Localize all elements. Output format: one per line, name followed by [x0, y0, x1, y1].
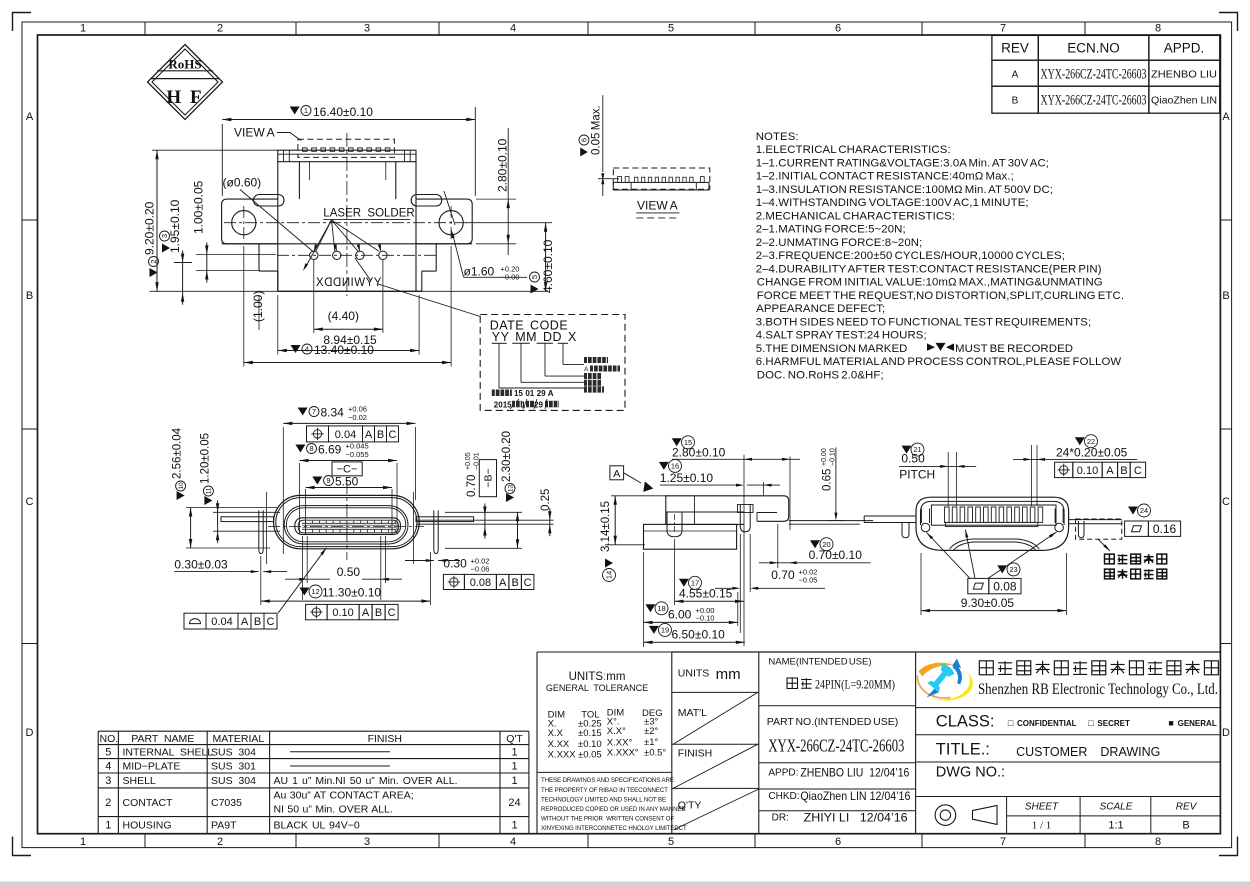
svg-text:1: 1 — [511, 775, 517, 787]
svg-text:24*0.20±0.05: 24*0.20±0.05 — [1056, 445, 1128, 459]
front view: dim 6.69 — [295, 445, 305, 453]
front view: fcf position 0.10 — [306, 604, 328, 619]
svg-text:0.25: 0.25 — [540, 489, 552, 511]
pin view: body outline — [916, 497, 1069, 550]
svg-text:3: 3 — [364, 836, 370, 848]
svg-text:10: 10 — [178, 482, 185, 490]
svg-text:0.50: 0.50 — [337, 565, 361, 579]
svg-text:6.50±0.10: 6.50±0.10 — [672, 628, 726, 642]
svg-text:2: 2 — [217, 836, 223, 848]
svg-text:2: 2 — [149, 259, 158, 263]
svg-text:8: 8 — [309, 444, 313, 453]
svg-text:3: 3 — [364, 23, 370, 35]
front view: fcf arc 0.04 with leader — [184, 613, 206, 629]
left dim 1.95 — [174, 262, 192, 264]
svg-text:WITHOUT THE PRIOR WRITTEN CON: WITHOUT THE PRIOR WRITTEN CONSENT OF — [541, 815, 674, 822]
svg-text:INTERNAL SHELL: INTERNAL SHELL — [123, 746, 214, 758]
svg-text:mm: mm — [716, 666, 741, 683]
svg-text:FINISH: FINISH — [678, 747, 712, 759]
svg-text:PA9T: PA9T — [211, 819, 237, 831]
sheet/scale/rev mini table — [916, 796, 1221, 798]
svg-text:A: A — [584, 366, 589, 373]
svg-text:−0.05: −0.05 — [799, 576, 818, 585]
svg-text:B: B — [26, 290, 33, 302]
mounting holes — [232, 211, 256, 235]
svg-text:MAT'L: MAT'L — [678, 707, 707, 719]
side view: dim 2.80 — [672, 438, 682, 446]
svg-text:XYX-266CZ-24TC-26603: XYX-266CZ-24TC-26603 — [1041, 67, 1147, 83]
svg-text:4: 4 — [510, 836, 516, 848]
svg-text:CLASS:: CLASS: — [936, 712, 995, 730]
pin view: right lead and dashed zone — [1069, 519, 1122, 521]
svg-text:□: □ — [1008, 718, 1014, 728]
svg-text:UNITS: UNITS — [678, 667, 710, 679]
pin view: side latches — [921, 523, 930, 532]
svg-text:6: 6 — [835, 836, 841, 848]
svg-text:Q'TY: Q'TY — [678, 800, 702, 812]
svg-text:24PIN(L=9.20MM): 24PIN(L=9.20MM) — [815, 676, 895, 691]
svg-text:X.XXX°: X.XXX° — [607, 748, 639, 759]
svg-text:SUS 304: SUS 304 — [211, 746, 256, 758]
svg-text:(ø0.60): (ø0.60) — [223, 176, 262, 190]
svg-text:3.BOTH SIDES NEED TO FUNCT: 3.BOTH SIDES NEED TO FUNCTIONAL TEST REQ… — [756, 316, 1092, 328]
svg-text:MID−PLATE: MID−PLATE — [123, 761, 181, 773]
svg-text:0.04: 0.04 — [335, 429, 356, 441]
svg-text:2.80±0.10: 2.80±0.10 — [672, 445, 726, 459]
svg-text:2–1.MATING FORCE:5~20N;: 2–1.MATING FORCE:5~20N; — [756, 224, 906, 236]
svg-text:GENERAL TOLERANCE: GENERAL TOLERANCE — [546, 683, 648, 693]
svg-text:2: 2 — [217, 23, 223, 35]
left dim 9.20 — [152, 149, 278, 151]
svg-text:A: A — [499, 577, 507, 589]
svg-text:A: A — [362, 607, 370, 619]
svg-text:Q'T: Q'T — [506, 733, 523, 745]
svg-text:0.16: 0.16 — [1153, 522, 1177, 536]
svg-text:9: 9 — [326, 476, 330, 485]
revision table — [992, 35, 1038, 60]
svg-text:PITCH: PITCH — [899, 468, 935, 482]
svg-text:1: 1 — [80, 836, 86, 848]
svg-text:1: 1 — [511, 746, 517, 758]
svg-text:CHANGE FROM INITIAL VALUE:1: CHANGE FROM INITIAL VALUE:10mΩ MAX.,MATI… — [756, 277, 1103, 289]
svg-text:DRAWING: DRAWING — [1100, 745, 1160, 759]
view a detail: part profile — [613, 168, 710, 189]
svg-text:D: D — [1222, 727, 1230, 739]
title block grid — [672, 651, 1221, 653]
svg-text:1–2.INITIAL CONTACT RESISTAN: 1–2.INITIAL CONTACT RESISTANCE:40mΩ Max.… — [756, 171, 1014, 183]
svg-text:UNITSːmm: UNITSːmm — [569, 671, 626, 683]
svg-text:8: 8 — [1155, 836, 1161, 848]
svg-text:2–3.FREQUENCE:200±50 CYCLES/H: 2–3.FREQUENCE:200±50 CYCLES/HOUR,10000 C… — [756, 250, 1065, 262]
svg-text:ZHENBO LIU 12/04’16: ZHENBO LIU 12/04’16 — [800, 765, 909, 779]
svg-text:C: C — [1134, 465, 1142, 477]
svg-text:B: B — [1222, 290, 1229, 302]
svg-text:APPD:: APPD: — [768, 768, 798, 779]
svg-text:DWG NO.:: DWG NO.: — [936, 765, 1005, 781]
svg-text:B: B — [377, 429, 384, 441]
svg-text:BLACK UL 94V−0: BLACK UL 94V−0 — [274, 819, 360, 831]
company names — [979, 661, 993, 675]
svg-text:SCALE: SCALE — [1100, 802, 1133, 813]
pin view: fcf flatness 0.16 with marker 24 — [1128, 507, 1138, 515]
svg-text:5.THE DIMENSION MARKED: 5.THE DIMENSION MARKED — [756, 343, 908, 355]
svg-text:B: B — [375, 607, 382, 619]
svg-text:8.34: 8.34 — [321, 406, 345, 420]
svg-text:C: C — [389, 429, 397, 441]
svg-text:SUS 304: SUS 304 — [211, 775, 256, 787]
centerlines — [224, 222, 470, 224]
svg-text:±0.15: ±0.15 — [578, 728, 602, 739]
svg-text:NOTES:: NOTES: — [756, 131, 799, 143]
svg-text:14: 14 — [605, 571, 614, 579]
svg-text:0.30±0.03: 0.30±0.03 — [174, 558, 228, 572]
svg-text:QiaoZhen LIN: QiaoZhen LIN — [1151, 95, 1217, 107]
front view: dim 5.50 — [312, 477, 322, 485]
svg-text:7: 7 — [1000, 23, 1006, 35]
svg-text:2.56±0.04: 2.56±0.04 — [172, 427, 184, 479]
svg-text:YYWINDDX: YYWINDDX — [316, 277, 382, 289]
top view: dashed detail zone — [298, 139, 395, 157]
svg-text:A: A — [1222, 111, 1230, 123]
svg-text:GENERAL: GENERAL — [1178, 719, 1217, 728]
side view: body profile — [666, 496, 789, 522]
svg-text:TECHNOLOGY LIMITED AND SHALL N: TECHNOLOGY LIMITED AND SHALL NOT BE — [541, 796, 666, 803]
view a detail: dim 0.05 max — [602, 95, 604, 172]
svg-text:CUSTOMER: CUSTOMER — [1016, 745, 1087, 759]
svg-text:7: 7 — [1000, 836, 1006, 848]
svg-text:SECRET: SECRET — [1097, 719, 1130, 728]
svg-text:HOUSING: HOUSING — [123, 819, 172, 831]
date code legend box — [480, 315, 625, 411]
svg-text:0.65: 0.65 — [822, 469, 834, 491]
svg-text:15 01 29 A: 15 01 29 A — [514, 389, 554, 398]
svg-text:9.20±0.20: 9.20±0.20 — [143, 201, 157, 255]
svg-text:16: 16 — [671, 462, 679, 471]
svg-text:5: 5 — [530, 275, 539, 279]
svg-text:B: B — [1182, 820, 1189, 832]
svg-text:0.70: 0.70 — [771, 568, 795, 582]
title row — [916, 734, 1221, 736]
svg-text:5: 5 — [668, 836, 674, 848]
bottom dims 4.40 / 8.94 / 13.40 — [313, 259, 315, 333]
svg-text:±0.05: ±0.05 — [578, 749, 602, 760]
svg-text:0.04: 0.04 — [211, 616, 232, 628]
svg-text:13: 13 — [507, 485, 514, 493]
svg-text:NI 50 u” Min. OVER ALL.: NI 50 u” Min. OVER ALL. — [274, 804, 393, 816]
svg-text:±2°: ±2° — [644, 726, 658, 737]
svg-text:C: C — [388, 607, 396, 619]
svg-text:VIEW A: VIEW A — [637, 199, 678, 213]
svg-text:(1.00): (1.00) — [251, 291, 265, 322]
svg-text:B: B — [254, 616, 261, 628]
svg-text:3: 3 — [160, 234, 169, 238]
svg-text:X.X°: X.X° — [607, 726, 626, 737]
solder pads and laser solder callout — [277, 254, 437, 256]
svg-text:2: 2 — [105, 797, 111, 809]
pin view: fcf position 0.10 — [1055, 462, 1073, 477]
svg-text:3.14±0.15: 3.14±0.15 — [600, 501, 612, 552]
svg-text:5: 5 — [105, 746, 111, 758]
svg-text:1.00±0.05: 1.00±0.05 — [192, 180, 206, 234]
svg-text:□: □ — [1088, 718, 1094, 728]
svg-text:1: 1 — [304, 106, 308, 115]
svg-text:24: 24 — [508, 797, 520, 809]
side view: smt lead — [789, 520, 874, 522]
svg-text:C: C — [524, 577, 532, 589]
class row — [916, 707, 1221, 709]
svg-text:SHEET: SHEET — [1025, 802, 1059, 813]
svg-text:4.55±0.15: 4.55±0.15 — [679, 586, 733, 600]
svg-text:6.00: 6.00 — [668, 608, 692, 622]
svg-text:CONTACT: CONTACT — [123, 797, 174, 809]
svg-text:1–1.CURRENT RATING&VOLTAGE:3.: 1–1.CURRENT RATING&VOLTAGE:3.0A Min. AT … — [756, 157, 1049, 169]
side view: through leg — [667, 512, 682, 537]
svg-text:+0.05: +0.05 — [465, 452, 472, 470]
svg-text:5: 5 — [668, 23, 674, 35]
svg-text:2015: 2015 — [494, 401, 512, 410]
dwg row — [916, 761, 1221, 763]
pin view: leaders from fcf to body — [927, 533, 971, 579]
svg-text:D: D — [26, 727, 34, 739]
svg-text:0.08: 0.08 — [993, 579, 1017, 593]
leader from marking to date code box — [378, 284, 480, 317]
svg-text:29: 29 — [534, 401, 543, 410]
front view: 0.50 dim — [301, 536, 303, 600]
svg-text:4.SALT SPRAY TEST:24 HOURS;: 4.SALT SPRAY TEST:24 HOURS; — [756, 330, 927, 342]
svg-text:1: 1 — [511, 819, 517, 831]
svg-text:C: C — [26, 496, 34, 508]
svg-text:NAME(INTENDED USE): NAME(INTENDED USE) — [768, 657, 871, 668]
svg-text:6.HARMFUL MATERIAL AND PROC: 6.HARMFUL MATERIAL AND PROCESS CONTROL,P… — [756, 356, 1122, 368]
front view: fcf position 0.04 — [307, 426, 329, 442]
svg-text:MATERIAL: MATERIAL — [213, 733, 265, 745]
svg-text:0.50: 0.50 — [901, 451, 925, 465]
svg-text:2–4.DURABILITY AFTER TEST:CO: 2–4.DURABILITY AFTER TEST:CONTACT RESIST… — [756, 263, 1102, 275]
svg-text:PART NAME: PART NAME — [131, 733, 194, 745]
svg-text:1: 1 — [521, 401, 526, 410]
side view: dim 6.00 — [645, 604, 655, 612]
svg-text:3: 3 — [105, 775, 111, 787]
projection symbols — [935, 805, 956, 826]
svg-text:4: 4 — [510, 23, 516, 35]
svg-text:A: A — [241, 616, 249, 628]
svg-text:1: 1 — [80, 23, 86, 35]
top view: dim 16.40 overall width — [290, 107, 300, 115]
svg-text:■: ■ — [1168, 718, 1173, 728]
svg-text:6: 6 — [580, 138, 589, 142]
svg-text:ZHENBO LIU: ZHENBO LIU — [1151, 69, 1217, 81]
pin view: pitch 0.50 dim — [902, 446, 912, 454]
side view: dim 0.70+-0.10 — [810, 540, 820, 548]
svg-text:PART NO.(INTENDED USE): PART NO.(INTENDED USE) — [767, 716, 898, 728]
svg-text:B: B — [511, 577, 518, 589]
date code example row — [492, 390, 512, 397]
svg-text:1.25±0.10: 1.25±0.10 — [660, 471, 714, 485]
svg-text:VIEW A: VIEW A — [234, 126, 275, 140]
svg-text:+0.00: +0.00 — [821, 448, 828, 466]
svg-text:1:1: 1:1 — [1108, 820, 1123, 832]
pin view: chinese shield note — [1105, 554, 1115, 564]
svg-text:−0.10: −0.10 — [696, 614, 715, 623]
svg-text:7: 7 — [312, 407, 316, 416]
svg-text:4: 4 — [305, 345, 309, 354]
svg-text:8: 8 — [1155, 23, 1161, 35]
disclaimer box — [537, 771, 672, 773]
pin view: fcf flatness 0.08 with marker 23 — [997, 565, 1007, 573]
svg-text:±0.5°: ±0.5° — [644, 747, 666, 758]
svg-text:Au 30u” AT CONTACT AREA;: Au 30u” AT CONTACT AREA; — [274, 790, 414, 802]
left dim 1.00 — [196, 253, 276, 255]
svg-text:0.30: 0.30 — [443, 557, 467, 571]
svg-text:−0.06: −0.06 — [471, 565, 490, 574]
svg-text:16.40±0.10: 16.40±0.10 — [313, 105, 373, 119]
svg-text:THE PROPERTY OF RIBAO IN TEECO: THE PROPERTY OF RIBAO IN TEECONNECT — [541, 787, 668, 794]
svg-text:REV: REV — [1176, 802, 1198, 813]
svg-text:1: 1 — [511, 761, 517, 773]
pin view: bottom arch — [950, 539, 1040, 549]
svg-text:XYX-266CZ-24TC-26603: XYX-266CZ-24TC-26603 — [768, 735, 904, 755]
svg-text:X.XXX: X.XXX — [548, 749, 577, 760]
top view: connector body outline — [303, 148, 308, 151]
svg-text:12: 12 — [311, 587, 319, 596]
side view: datum A box and flag — [610, 466, 624, 480]
svg-text:YY MM DD X: YY MM DD X — [492, 330, 577, 344]
side view: dim 4.55 — [679, 579, 689, 587]
svg-text:QiaoZhen LIN 12/04’16: QiaoZhen LIN 12/04’16 — [800, 789, 910, 803]
svg-text:11.30±0.10: 11.30±0.10 — [322, 586, 381, 600]
svg-text:−0.02: −0.02 — [348, 413, 367, 422]
svg-text:DR:: DR: — [772, 812, 789, 823]
date code tiny legend blobs — [584, 357, 608, 363]
svg-text:NO.: NO. — [100, 733, 119, 745]
svg-text:23: 23 — [1009, 565, 1017, 574]
side view: extension verticals — [743, 455, 745, 646]
svg-text:A: A — [613, 468, 620, 480]
pin view: pin row — [931, 505, 1056, 525]
svg-text:XINYEXING INTERCONNETEC HNOLGY: XINYEXING INTERCONNETEC HNOLGY LIMITEDCT — [541, 825, 687, 832]
svg-text:H F: H F — [166, 87, 203, 108]
svg-text:C: C — [267, 616, 275, 628]
pin view: left lead and leg — [864, 515, 916, 517]
svg-text:6: 6 — [835, 23, 841, 35]
svg-text:A: A — [1106, 465, 1114, 477]
mid body — [222, 243, 473, 245]
svg-text:ECN.NO: ECN.NO — [1067, 41, 1120, 56]
svg-text:(4.40): (4.40) — [328, 309, 359, 323]
svg-text:B: B — [1012, 96, 1019, 107]
svg-text:X.X: X.X — [548, 728, 564, 739]
svg-text:APPD.: APPD. — [1164, 41, 1205, 56]
svg-text:CONFIDENTIAL: CONFIDENTIAL — [1017, 719, 1077, 728]
svg-text:4: 4 — [105, 761, 111, 773]
svg-text:RoHS: RoHS — [168, 57, 201, 72]
svg-text:Shenzhen RB Electronic Technol: Shenzhen RB Electronic Technology Co., L… — [978, 681, 1218, 698]
svg-text:0.05 Max.: 0.05 Max. — [591, 105, 603, 155]
svg-text:ø1.60: ø1.60 — [464, 265, 495, 279]
svg-text:THESE DRAWINGS AND SPECIFICATI: THESE DRAWINGS AND SPECIFICATIONS ARE — [541, 777, 674, 784]
svg-text:2.80±0.10: 2.80±0.10 — [496, 138, 510, 192]
svg-text:0.70±0.10: 0.70±0.10 — [809, 548, 863, 562]
svg-text:DOC. NO.RoHS 2.0&HF;: DOC. NO.RoHS 2.0&HF; — [756, 369, 884, 381]
svg-text:4.60±0.10: 4.60±0.10 — [541, 239, 555, 293]
svg-text:1: 1 — [105, 819, 111, 831]
front view: datum C box — [332, 462, 362, 476]
front view: through-hole legs — [259, 510, 263, 553]
svg-text:LASER SOLDER: LASER SOLDER — [323, 208, 414, 220]
svg-text:0.08: 0.08 — [470, 577, 491, 589]
svg-text:0.10: 0.10 — [1077, 465, 1098, 477]
svg-text:2–2.UNMATING FORCE:8~20N;: 2–2.UNMATING FORCE:8~20N; — [756, 237, 923, 249]
svg-text:1.20±0.05: 1.20±0.05 — [199, 433, 211, 484]
corner trim marks — [12, 12, 31, 14]
side view: dim 1.25 — [659, 462, 669, 470]
zone dividers and labels — [144, 22, 146, 35]
svg-text:ZHIYI LI 12/04’16: ZHIYI LI 12/04’16 — [804, 810, 908, 824]
svg-text:9.30±0.05: 9.30±0.05 — [961, 596, 1015, 610]
svg-text:6.69: 6.69 — [318, 442, 342, 456]
svg-text:0.10: 0.10 — [332, 607, 353, 619]
svg-text:11: 11 — [206, 487, 213, 494]
side view: dim 6.50 — [649, 626, 659, 634]
svg-text:1–3.INSULATION RESISTANCE:100: 1–3.INSULATION RESISTANCE:100MΩ Min. AT … — [756, 184, 1053, 196]
pin view: 24*0.20 dim — [1075, 437, 1085, 445]
date code tree lines — [498, 343, 500, 388]
side view: rear vertical element — [740, 505, 750, 532]
svg-text:2.MECHANICAL CHARACTERISTICS:: 2.MECHANICAL CHARACTERISTICS: — [756, 210, 955, 222]
svg-text:1.ELECTRICAL CHARACTERISTICS:: 1.ELECTRICAL CHARACTERISTICS: — [756, 144, 951, 156]
svg-text:−0.055: −0.055 — [346, 450, 369, 459]
svg-text:C7035: C7035 — [211, 797, 242, 809]
svg-text:MUST BE RECORDED: MUST BE RECORDED — [955, 343, 1073, 355]
parts list table — [98, 730, 529, 732]
svg-text:APPEARANCE DEFECT;: APPEARANCE DEFECT; — [756, 303, 886, 315]
svg-text:A: A — [26, 111, 34, 123]
svg-text:2.30±0.20: 2.30±0.20 — [501, 431, 513, 482]
svg-text:C: C — [1222, 496, 1230, 508]
svg-text:FINISH: FINISH — [368, 733, 402, 745]
svg-text:18: 18 — [657, 604, 665, 613]
svg-text:−B−: −B− — [482, 468, 494, 487]
svg-text:SHELL: SHELL — [123, 775, 156, 787]
svg-text:24: 24 — [1140, 506, 1148, 515]
svg-text:FORCE MEET THE REQUEST,NO: FORCE MEET THE REQUEST,NO DISTORTION,SPL… — [756, 290, 1124, 302]
RoHS HF diamond logo — [148, 45, 223, 120]
front view: dim 11.30 — [260, 556, 262, 605]
svg-text:1 / 1: 1 / 1 — [1032, 820, 1052, 832]
front view: tongue with pins — [295, 518, 401, 535]
svg-text:1.95±0.10: 1.95±0.10 — [168, 199, 182, 253]
svg-text:AU 1 u” Min.NI 50 u” Min: AU 1 u” Min.NI 50 u” Min. OVER ALL. — [274, 775, 458, 787]
name column rows — [759, 705, 916, 707]
svg-text:1–4.WITHSTANDING VOLTAGE:100V: 1–4.WITHSTANDING VOLTAGE:100V AC,1 MINUT… — [756, 197, 1029, 209]
svg-text:19: 19 — [661, 626, 669, 635]
front view: dim 8.34 with tolerance — [298, 408, 308, 416]
label column: units/matl/finish/qty — [672, 691, 759, 693]
svg-text:0.70: 0.70 — [466, 475, 478, 497]
svg-text:A: A — [1012, 70, 1019, 81]
svg-text:REPRODUCED COPIED OR USED IN A: REPRODUCED COPIED OR USED IN ANY MANNER — [541, 806, 686, 813]
general tolerance block — [536, 652, 538, 834]
svg-text:REV: REV — [1001, 41, 1029, 56]
company logo — [917, 659, 972, 701]
bottom edge with extensions — [150, 290, 549, 292]
svg-text:B: B — [1120, 465, 1127, 477]
svg-text:TITLE.:: TITLE.: — [936, 740, 990, 758]
svg-text:CHKD:: CHKD: — [768, 791, 799, 802]
svg-text:SUS 301: SUS 301 — [211, 761, 256, 773]
front view: fcf position 0.08 — [443, 574, 464, 589]
pin view: leader to shield note — [1098, 539, 1110, 551]
